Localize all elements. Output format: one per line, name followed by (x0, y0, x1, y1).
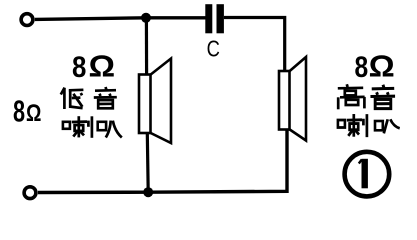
capacitor C plate left (205, 4, 212, 33)
svg-text:8: 8 (355, 50, 369, 84)
wire bottom (terminal to junction to right corner, up to tweeter) (38, 130, 287, 193)
svg-text:Ω: Ω (89, 49, 116, 84)
node junction bottom (143, 187, 153, 197)
node junction top (141, 13, 151, 23)
figure number digit 1 (362, 159, 368, 189)
figure number circle 1 (345, 152, 390, 197)
label yin (sound) 音 right (370, 85, 395, 109)
label la-ba (speaker) 喇叭 left (63, 116, 92, 138)
terminal input top-left (21, 14, 33, 26)
svg-text:8: 8 (72, 50, 86, 83)
label di (low) 低 (61, 88, 84, 109)
capacitor C plate right (217, 4, 224, 33)
svg-text:Ω: Ω (26, 99, 41, 127)
speaker tweeter LS2 frame (279, 71, 290, 130)
terminal input bottom-left (24, 187, 36, 199)
svg-text:Ω: Ω (369, 48, 395, 83)
svg-text:8: 8 (13, 93, 25, 128)
label gao (high) 高 (338, 84, 365, 109)
wire junction down to woofer (145, 18, 148, 75)
speaker woofer LS1 cone (151, 59, 171, 144)
speaker woofer LS1 frame (139, 75, 151, 134)
wire capacitor to top-right corner, down to tweeter (224, 18, 285, 72)
svg-text:C: C (207, 37, 220, 62)
speaker tweeter LS2 cone (290, 57, 306, 141)
wire woofer to bottom junction (146, 133, 150, 192)
label la-ba (speaker) 喇叭 right (338, 114, 367, 137)
wire top (terminal to junction to capacitor) (35, 18, 206, 20)
label yin (sound) 音 left (94, 87, 117, 108)
